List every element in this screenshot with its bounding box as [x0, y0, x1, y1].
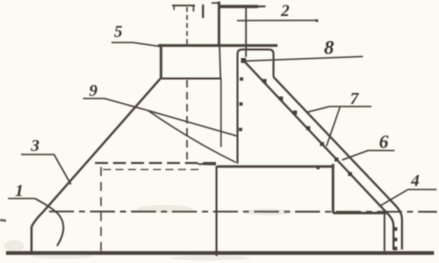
rebar dots on vertical tail: [394, 227, 398, 250]
column centerline upper: [218, 2, 221, 46]
leader 3: [21, 155, 71, 185]
top bracket above ground (left part of column head): [172, 5, 195, 7]
svg-text:2: 2: [280, 1, 290, 20]
step shelf: [333, 212, 386, 215]
svg-text:8: 8: [324, 37, 334, 59]
ground dash-dot line: [49, 211, 437, 213]
scan artifact left edge: [0, 219, 6, 222]
leader 4: [379, 190, 437, 207]
base ground line: [6, 251, 434, 255]
hidden lower step line (dashed thin): [103, 169, 201, 171]
leader 6: [342, 151, 395, 161]
pedestal bottom: [160, 78, 222, 80]
rebar dots on left leg of bar 8: [239, 77, 243, 131]
column head right post: [202, 5, 204, 19]
step top right: [217, 165, 332, 168]
pedestal left edge: [160, 44, 163, 79]
footing right edge: [384, 213, 386, 251]
leader 9 underline: [83, 98, 105, 100]
bar 8 anchor dot: [241, 58, 246, 63]
column hidden edge (dashed) upper: [186, 7, 188, 44]
leader 2 line: [237, 19, 318, 21]
leader 7 branch a: [306, 107, 330, 113]
leader 9 lower branch: [148, 111, 236, 163]
leader 1: [8, 198, 35, 200]
top datum bar: [219, 5, 258, 8]
step corner dot: [316, 166, 319, 169]
anchor bolt vertical: [245, 7, 247, 57]
hidden step line solid end: [198, 163, 216, 166]
leader 7 underline: [330, 106, 372, 108]
svg-text:4: 4: [410, 171, 420, 190]
svg-text:5: 5: [114, 22, 123, 41]
column hidden edge below pedestal: [220, 79, 222, 147]
svg-text:1: 1: [15, 181, 24, 200]
slope bar B (inner with dots): [244, 61, 394, 250]
svg-text:3: 3: [30, 136, 40, 155]
centerline crossbar tick: [212, 2, 220, 4]
svg-text:9: 9: [89, 81, 98, 100]
leader 8: [246, 57, 363, 62]
faint scan smudges: [4, 205, 293, 261]
pedestal top: [158, 44, 278, 47]
leader 5: [112, 43, 161, 47]
hidden footing edge (dashed): [100, 167, 102, 251]
left slope of foundation: [32, 79, 161, 252]
center section vertical: [216, 166, 218, 256]
leader 7 branch b: [327, 107, 341, 146]
leader 9 main branch: [105, 99, 238, 137]
column centerline through pedestal: [220, 45, 221, 78]
rebar dots on slope bar B: [263, 79, 353, 176]
bent bar 8 (rounded U): [238, 50, 274, 164]
column hidden edge (dashed) lower: [186, 80, 188, 161]
step riser: [332, 164, 335, 213]
hidden step top (dashed): [95, 162, 216, 164]
slope bar A (outer): [274, 77, 403, 250]
